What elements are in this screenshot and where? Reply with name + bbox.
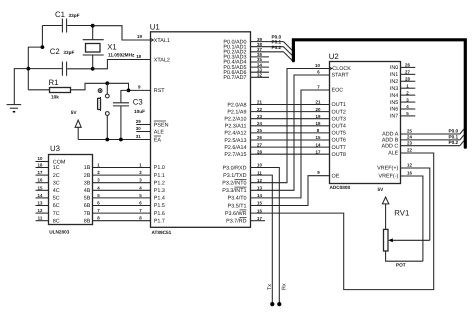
- node: C2/ground junction: [26, 67, 30, 71]
- svg-text:XTAL1: XTAL1: [154, 38, 170, 44]
- svg-text:21: 21: [316, 100, 321, 105]
- svg-text:P3.3/INT1: P3.3/INT1: [222, 188, 246, 194]
- svg-text:P2.3/A11: P2.3/A11: [225, 124, 247, 130]
- svg-text:14: 14: [38, 193, 43, 198]
- pin P1.3 (4) wire to U3: [93, 185, 165, 194]
- svg-text:10uF: 10uF: [134, 109, 145, 114]
- svg-text:P3.5/T1: P3.5/T1: [228, 203, 247, 209]
- svg-text:25: 25: [407, 129, 412, 134]
- svg-text:12: 12: [38, 208, 43, 213]
- svg-text:P2.0/A8: P2.0/A8: [227, 102, 246, 108]
- svg-text:18: 18: [38, 163, 43, 168]
- svg-text:P2.4/A12: P2.4/A12: [224, 131, 246, 137]
- svg-text:5B: 5B: [84, 196, 91, 202]
- svg-text:13: 13: [257, 186, 262, 191]
- capacitor C2: [28, 47, 92, 76]
- svg-text:11.0592MHz: 11.0592MHz: [108, 52, 135, 57]
- svg-text:CLOCK: CLOCK: [332, 66, 351, 72]
- svg-text:27: 27: [405, 70, 410, 75]
- power 5V arrow (reset rail): [71, 110, 81, 139]
- svg-text:P1.7: P1.7: [154, 218, 165, 224]
- wire P3.0/RXD to Rx terminal: [251, 168, 280, 305]
- svg-text:26: 26: [405, 63, 410, 68]
- svg-text:19: 19: [316, 114, 321, 119]
- resistor R1: [28, 78, 107, 99]
- svg-text:OE: OE: [332, 173, 340, 179]
- svg-text:16: 16: [257, 208, 262, 213]
- svg-text:P0.2: P0.2: [449, 140, 459, 145]
- svg-text:P3.7/RD: P3.7/RD: [226, 219, 246, 225]
- op-amp U2 ADC0808 body: [329, 52, 401, 190]
- pin IN3 (1) stub: [390, 83, 415, 92]
- pin XTAL2 (18): [136, 54, 170, 63]
- svg-text:XTAL2: XTAL2: [154, 57, 170, 63]
- svg-text:OUT5: OUT5: [332, 131, 346, 137]
- pin VREF(+) (12) wire to RV1 wiper: [377, 163, 430, 241]
- svg-text:2B: 2B: [84, 173, 91, 179]
- pin PSEN (29): [136, 119, 169, 128]
- svg-text:Rx: Rx: [282, 283, 288, 290]
- pin OE (9): [317, 170, 339, 179]
- svg-text:P1.3: P1.3: [154, 188, 165, 194]
- pin 2B label: [84, 173, 91, 179]
- svg-text:P2.5/A13: P2.5/A13: [224, 138, 246, 144]
- svg-text:IN7: IN7: [390, 114, 398, 120]
- svg-text:17: 17: [257, 216, 262, 221]
- svg-text:P3.6/WR: P3.6/WR: [225, 211, 247, 217]
- svg-text:8B: 8B: [84, 218, 91, 224]
- svg-text:16: 16: [407, 171, 412, 176]
- svg-text:7C: 7C: [53, 211, 60, 217]
- wire P3.6/WR to U2 ALE (bottom loop): [251, 153, 434, 290]
- svg-text:24: 24: [407, 135, 412, 140]
- pin OUT8 label: [332, 152, 346, 158]
- svg-text:29: 29: [136, 119, 141, 124]
- svg-text:15: 15: [316, 135, 321, 140]
- svg-text:P3.1/TXD: P3.1/TXD: [223, 173, 246, 179]
- pin P2.3/A11 (24) wire to U2 OUT4: [225, 121, 330, 130]
- node: XTAL1 net junction: [91, 24, 95, 28]
- svg-text:VREF(+): VREF(+): [377, 166, 398, 172]
- svg-text:14: 14: [257, 193, 262, 198]
- svg-text:12: 12: [257, 178, 262, 183]
- svg-text:OUT2: OUT2: [332, 109, 346, 115]
- pin P1.2 (3) wire to U3: [93, 178, 165, 187]
- pin P2.7/A15 (28) wire to U2 OUT8: [224, 149, 329, 158]
- bus wire: P0 address bus: [293, 40, 465, 147]
- svg-text:IN4: IN4: [390, 93, 398, 99]
- svg-text:33pF: 33pF: [69, 13, 80, 18]
- svg-text:8C: 8C: [53, 218, 60, 224]
- pin 5B label: [84, 196, 91, 202]
- svg-text:20: 20: [316, 107, 321, 112]
- svg-text:IN5: IN5: [390, 100, 398, 106]
- node: C3 bottom on rail: [119, 138, 123, 142]
- svg-text:POT: POT: [396, 263, 406, 268]
- pin ALE (22): [388, 148, 412, 157]
- pin ADD B (24) with bus entry P0.1: [382, 134, 464, 143]
- pin P3.4/T0 (14) label: [228, 193, 263, 202]
- pin IN0 (26) stub: [390, 63, 415, 72]
- pin 7C (12) stub: [36, 208, 60, 217]
- wire P3.1/TXD to Tx terminal: [251, 175, 273, 304]
- pin P1.6 (7) wire to U3: [93, 208, 165, 217]
- svg-text:1C: 1C: [53, 165, 60, 171]
- svg-text:10: 10: [315, 63, 320, 68]
- svg-text:X1: X1: [107, 43, 117, 52]
- push button: [98, 83, 110, 139]
- svg-text:ALE: ALE: [388, 151, 399, 157]
- svg-text:P1.6: P1.6: [154, 211, 165, 217]
- wire P3.3/INT1 to U2 START: [251, 75, 330, 190]
- svg-text:OUT3: OUT3: [332, 116, 346, 122]
- wire P3.2/INT0 to U2 CLOCK: [251, 69, 330, 183]
- pin P0.5/AD5 (34): [223, 62, 269, 71]
- pin XTAL1 (19): [137, 34, 170, 44]
- pin 1B label: [84, 165, 91, 171]
- svg-text:6C: 6C: [53, 203, 60, 209]
- svg-text:VREF(-): VREF(-): [379, 174, 399, 180]
- svg-text:18: 18: [136, 54, 141, 59]
- svg-text:11: 11: [38, 216, 43, 221]
- svg-text:EOC: EOC: [332, 88, 344, 94]
- svg-text:13: 13: [38, 201, 43, 206]
- pin 4B label: [84, 188, 91, 194]
- svg-text:28: 28: [257, 149, 262, 154]
- svg-text:25: 25: [257, 128, 262, 133]
- svg-text:16: 16: [38, 178, 43, 183]
- svg-text:17: 17: [316, 149, 321, 154]
- svg-text:1B: 1B: [84, 165, 91, 171]
- pin COM (10) stub: [36, 156, 66, 165]
- pin P0.0/AD0 (39): [223, 35, 292, 51]
- pin 5C (14) stub: [36, 193, 60, 202]
- svg-text:P3.0/RXD: P3.0/RXD: [223, 165, 247, 171]
- svg-text:23: 23: [257, 114, 262, 119]
- svg-text:5C: 5C: [53, 196, 60, 202]
- pin 3C (16) stub: [36, 178, 60, 187]
- svg-text:5V: 5V: [378, 187, 385, 192]
- pin OUT7 label: [332, 145, 346, 151]
- svg-text:21: 21: [257, 100, 262, 105]
- pin P3.7/RD (17) label: [226, 216, 262, 225]
- svg-text:ULN2803: ULN2803: [49, 230, 69, 235]
- pin IN1 (27) stub: [390, 70, 415, 79]
- svg-text:C2: C2: [50, 47, 60, 56]
- svg-text:U1: U1: [150, 23, 160, 32]
- capacitor C3: [113, 90, 145, 139]
- svg-text:P2.2/A10: P2.2/A10: [224, 117, 246, 123]
- pin ALE (30): [136, 126, 165, 135]
- svg-text:P1.2: P1.2: [154, 180, 165, 186]
- svg-text:10k: 10k: [51, 95, 59, 100]
- svg-text:P0.0: P0.0: [449, 128, 459, 133]
- wire P3.5/T1 to U2 OE: [251, 176, 330, 206]
- pin P0.4/AD4 (35): [223, 57, 269, 65]
- svg-text:ADD C: ADD C: [382, 143, 399, 149]
- pin P2.2/A10 (23) wire to U2 OUT3: [224, 114, 329, 123]
- pin P3.5/T1 (15) label: [228, 201, 263, 210]
- pin P3.3/INT1 (13) label: [222, 186, 262, 195]
- svg-text:P1.1: P1.1: [154, 173, 165, 179]
- pin IN7 (5) stub: [390, 111, 415, 120]
- svg-text:23: 23: [407, 140, 412, 145]
- svg-text:P0.2: P0.2: [272, 45, 282, 50]
- power 5V arrow (RV1): [378, 187, 389, 229]
- pin P0.6/AD6 (33): [223, 67, 269, 76]
- terminal Rx: [277, 283, 287, 306]
- wire P3.7/RD stub: [251, 220, 266, 222]
- svg-text:28: 28: [405, 76, 410, 81]
- svg-text:P0.7/AD7: P0.7/AD7: [223, 75, 246, 81]
- pin 6C (13) stub: [36, 201, 60, 210]
- pin P1.0 (1) wire to U3: [93, 163, 165, 172]
- svg-text:IN2: IN2: [390, 79, 398, 85]
- svg-text:P1.4: P1.4: [154, 196, 165, 202]
- svg-text:12: 12: [407, 163, 412, 168]
- pin 7B label: [84, 211, 91, 217]
- svg-text:OUT4: OUT4: [332, 124, 346, 130]
- svg-text:27: 27: [257, 142, 262, 147]
- svg-text:EA: EA: [154, 137, 162, 143]
- pin P2.5/A13 (26) wire to U2 OUT6: [224, 135, 329, 144]
- svg-text:P2.1/A9: P2.1/A9: [227, 109, 246, 115]
- svg-text:15: 15: [257, 201, 262, 206]
- svg-text:32: 32: [257, 73, 262, 78]
- node: RST/C3 junction: [127, 89, 131, 93]
- svg-text:P1.5: P1.5: [154, 203, 165, 209]
- pin 8C (11) stub: [36, 216, 60, 225]
- pin 8B label: [84, 218, 91, 224]
- pin 2C (17) stub: [36, 170, 60, 179]
- svg-text:P1.0: P1.0: [154, 165, 165, 171]
- svg-text:RST: RST: [154, 88, 165, 94]
- pin OUT5 label: [332, 131, 346, 137]
- node: C1 jog junction: [41, 45, 45, 49]
- svg-text:22: 22: [407, 148, 412, 153]
- pin EOC (7): [317, 85, 343, 94]
- node: XTAL2 net junction: [91, 67, 95, 71]
- svg-text:22: 22: [257, 107, 262, 112]
- svg-text:OUT6: OUT6: [332, 138, 346, 144]
- pin P1.1 (2) wire to U3: [93, 170, 165, 179]
- svg-text:30: 30: [136, 126, 141, 131]
- pin ADD C (23) with bus entry P0.2: [382, 140, 464, 149]
- pin P1.5 (6) wire to U3: [93, 201, 165, 210]
- wire C1 left leg to ground node: [28, 26, 42, 90]
- svg-text:U2: U2: [329, 52, 339, 61]
- svg-text:ALE: ALE: [154, 129, 165, 135]
- svg-text:OUT1: OUT1: [332, 102, 346, 108]
- pin P0.3/AD3 (36): [223, 52, 269, 61]
- svg-text:IN0: IN0: [390, 65, 398, 71]
- pin OUT1 label: [332, 102, 346, 108]
- terminal Tx: [267, 284, 275, 306]
- pin OUT6 label: [332, 138, 346, 144]
- pin IN4 (2) stub: [390, 90, 415, 99]
- pin P3.0/RXD (10) label: [223, 163, 263, 172]
- wire crystal bottom to XTAL2 pin: [93, 60, 151, 69]
- node: button/RST junction: [105, 81, 109, 85]
- svg-text:24: 24: [257, 121, 262, 126]
- pin OUT2 label: [332, 109, 346, 115]
- svg-text:IN3: IN3: [390, 86, 398, 92]
- pin OUT4 label: [332, 124, 346, 130]
- pin P1.4 (5) wire to U3: [93, 193, 165, 202]
- pin OUT3 label: [332, 116, 346, 122]
- svg-text:33pF: 33pF: [63, 50, 74, 55]
- ground: [7, 69, 29, 113]
- pin 6B label: [84, 203, 91, 209]
- svg-text:15: 15: [38, 185, 43, 190]
- svg-text:AT89C51: AT89C51: [152, 230, 172, 235]
- svg-text:C1: C1: [55, 10, 65, 19]
- svg-text:31: 31: [136, 134, 141, 139]
- svg-text:IN1: IN1: [390, 72, 398, 78]
- svg-text:OUT8: OUT8: [332, 152, 346, 158]
- svg-text:18: 18: [316, 121, 321, 126]
- pin P3.1/TXD (11) label: [223, 170, 262, 179]
- node: button bottom on rail: [105, 138, 109, 142]
- pin P2.6/A14 (27) wire to U2 OUT7: [224, 142, 329, 151]
- pin ADD A (25) with bus entry P0.0: [382, 128, 464, 137]
- svg-text:P3.2/INT0: P3.2/INT0: [222, 181, 246, 187]
- pin IN6 (4) stub: [390, 104, 415, 113]
- svg-text:10: 10: [257, 163, 262, 168]
- pin P0.2/AD2 (37): [223, 45, 292, 61]
- svg-text:17: 17: [38, 170, 43, 175]
- svg-text:3B: 3B: [84, 180, 91, 186]
- pin RST (9): [138, 85, 165, 95]
- svg-text:7B: 7B: [84, 211, 91, 217]
- potentiometer RV1: [384, 209, 430, 268]
- svg-text:ADC0808: ADC0808: [330, 185, 351, 190]
- pin P2.4/A12 (25) wire to U2 OUT5: [224, 128, 329, 137]
- svg-text:P0.1: P0.1: [449, 134, 459, 139]
- crystal X1: [83, 26, 135, 69]
- svg-text:C3: C3: [133, 97, 143, 106]
- wire 5V rail to EA pin: [78, 139, 150, 141]
- svg-text:PSEN: PSEN: [154, 122, 169, 128]
- svg-text:10: 10: [38, 156, 43, 161]
- svg-text:11: 11: [257, 170, 262, 175]
- pin 3B label: [84, 180, 91, 186]
- pin P1.7 (8) wire to U3: [93, 216, 165, 225]
- svg-text:2C: 2C: [53, 173, 60, 179]
- wire P3.4/T0 to U2 EOC: [251, 90, 330, 198]
- pin 4C (15) stub: [36, 185, 60, 194]
- pin P2.1/A9 (22) wire to U2 OUT2: [227, 107, 329, 116]
- svg-text:Tx: Tx: [267, 284, 273, 290]
- svg-text:4C: 4C: [53, 188, 60, 194]
- op-amp U1 AT89C51 microcontroller body: [150, 23, 251, 236]
- pin CLOCK (10): [315, 63, 351, 72]
- pin P0.7/AD7 (32): [223, 73, 269, 82]
- svg-text:RV1: RV1: [394, 209, 409, 218]
- pin EA (31): [136, 134, 162, 143]
- pin P0.1/AD1 (38): [223, 40, 292, 56]
- capacitor C1: [42, 10, 92, 33]
- wire crystal top to XTAL1 pin: [93, 26, 151, 40]
- pin P2.0/A8 (21) wire to U2 OUT1: [227, 100, 329, 109]
- wire RST node jog: [107, 83, 150, 90]
- svg-text:P2.6/A14: P2.6/A14: [224, 145, 246, 151]
- svg-text:U3: U3: [50, 144, 60, 153]
- svg-text:14: 14: [316, 142, 321, 147]
- pin IN5 (3) stub: [390, 97, 415, 106]
- pin IN2 (28) stub: [390, 76, 415, 85]
- svg-text:R1: R1: [49, 78, 59, 87]
- svg-text:6B: 6B: [84, 203, 91, 209]
- pin P3.6/WR (16) label: [225, 208, 263, 217]
- svg-text:START: START: [332, 73, 350, 79]
- svg-text:3C: 3C: [53, 180, 60, 186]
- pin P3.2/INT0 (12) label: [222, 178, 262, 187]
- svg-text:4B: 4B: [84, 188, 91, 194]
- svg-text:OUT7: OUT7: [332, 145, 346, 151]
- svg-text:5V: 5V: [71, 110, 78, 115]
- svg-text:P2.7/A15: P2.7/A15: [224, 152, 246, 158]
- pin 1C (18) stub: [36, 163, 60, 172]
- svg-text:P3.4/T0: P3.4/T0: [228, 196, 247, 202]
- svg-text:19: 19: [137, 34, 142, 39]
- svg-text:26: 26: [257, 135, 262, 140]
- transistor-array U3 ULN2803 body: [49, 144, 93, 235]
- svg-text:IN6: IN6: [390, 107, 398, 113]
- pin VREF(-) (16) wire to RV1 bottom: [379, 171, 423, 262]
- pin START (6): [317, 70, 349, 79]
